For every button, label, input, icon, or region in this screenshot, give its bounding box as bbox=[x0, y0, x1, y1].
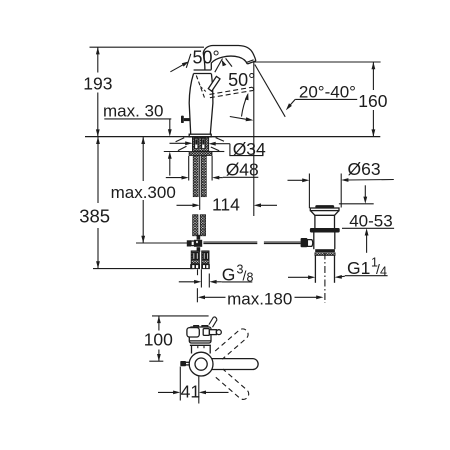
svg-text:114: 114 bbox=[212, 194, 240, 214]
deck hatch right bbox=[216, 138, 224, 142]
svg-text:G1: G1 bbox=[347, 258, 370, 278]
plan head: left cap bbox=[187, 328, 199, 337]
dimension 160 vertical line bbox=[372, 62, 374, 90]
dimension diam 48 extension lines bbox=[188, 156, 190, 181]
drain: diam63 extension lines bbox=[308, 174, 310, 209]
diam34 label riser bbox=[230, 144, 264, 156]
dimension diam 34 arrows bbox=[170, 142, 187, 144]
drain body lower bbox=[313, 233, 315, 250]
hose nut left bbox=[190, 264, 200, 269]
plan head: main body bbox=[189, 327, 211, 343]
tick for 50deg leader bbox=[186, 54, 191, 68]
arrow down 193 bbox=[96, 129, 100, 136]
plan lever tip bbox=[216, 330, 221, 335]
leader arrow 20-40 bbox=[288, 99, 295, 107]
plan dashed arm lower bbox=[216, 369, 249, 399]
neck top lines bbox=[194, 69, 212, 71]
svg-text:Ø34: Ø34 bbox=[233, 139, 266, 159]
reference line spout height 160 bbox=[254, 61, 381, 63]
plan dashed arm upper bbox=[215, 329, 248, 359]
stream angle line 20-40 bbox=[255, 65, 285, 117]
spout left edge into neck bbox=[203, 53, 205, 70]
dimension 385 vertical line bbox=[97, 137, 99, 203]
drain bottom flange bbox=[315, 249, 335, 252]
underline 40-53 bbox=[342, 227, 394, 229]
leader arrow to tick bbox=[170, 64, 185, 72]
svg-text:max.300: max.300 bbox=[111, 183, 176, 202]
dimension G1 1/4 arrows bbox=[288, 276, 310, 278]
deck line bbox=[85, 136, 380, 138]
svg-text:4: 4 bbox=[380, 265, 387, 279]
pop-up rod inside tube bbox=[199, 156, 201, 210]
hose nut right bbox=[201, 264, 210, 269]
handle axis extension line bbox=[215, 59, 223, 73]
svg-text:41: 41 bbox=[181, 381, 200, 401]
underline 20-40 bbox=[295, 98, 357, 100]
arrow up max.30 below deck bbox=[169, 158, 171, 176]
arrow up 193 bbox=[96, 47, 100, 54]
lever ghost diagonal bbox=[209, 317, 214, 324]
plan head: top tabs bbox=[194, 326, 199, 329]
drain plug dome bbox=[315, 205, 334, 208]
G3/8 arrows bbox=[179, 281, 196, 283]
pop-up rod horizontal left segment bbox=[136, 242, 187, 244]
mounting nut flange bbox=[189, 152, 212, 156]
40-53 bottom arrow bbox=[366, 235, 368, 253]
svg-text:40-53: 40-53 bbox=[349, 212, 392, 231]
svg-text:100: 100 bbox=[144, 330, 173, 350]
handle dashed ghost position bbox=[210, 87, 253, 94]
svg-text:50°: 50° bbox=[228, 70, 255, 90]
plan inner circle bbox=[195, 358, 207, 370]
spout tip face bbox=[247, 61, 256, 64]
rod tee assembly bbox=[187, 240, 191, 246]
drain upper body bbox=[314, 215, 316, 228]
deck hatch left bbox=[176, 138, 185, 142]
dimension 41 bbox=[179, 367, 181, 401]
plan pop-up knob bbox=[180, 361, 186, 366]
small leader line right bbox=[226, 58, 232, 66]
plan neck bbox=[191, 345, 193, 353]
plan spout circle bbox=[189, 352, 213, 376]
spout inner underside curve bbox=[211, 56, 247, 70]
body right edge bbox=[210, 74, 213, 135]
arc for 50deg spout bbox=[242, 95, 248, 117]
svg-text:Ø63: Ø63 bbox=[348, 159, 381, 179]
spout aerator bbox=[246, 60, 254, 63]
arrow down max.30 to deck bbox=[169, 119, 171, 130]
svg-text:50°: 50° bbox=[193, 47, 220, 67]
handle lever bbox=[208, 76, 220, 91]
hose connector right bbox=[202, 251, 209, 264]
deck underside line left bbox=[164, 151, 189, 153]
deck underside line right bbox=[209, 151, 225, 153]
svg-text:max.180: max.180 bbox=[227, 289, 292, 308]
plan lever block bbox=[203, 329, 209, 336]
escutcheon base plate bbox=[189, 134, 211, 137]
drain thread ring bbox=[315, 253, 335, 256]
diam 48 arrows bbox=[166, 177, 183, 179]
drain flange taper bbox=[311, 211, 339, 216]
drain locknut bbox=[310, 228, 340, 233]
dimension 193 vertical line bbox=[97, 47, 99, 72]
top reference line at faucet top bbox=[90, 46, 205, 48]
tailpipe bbox=[314, 255, 316, 282]
hose connector left bbox=[191, 251, 199, 264]
reference line bottom of arc bbox=[230, 117, 247, 120]
body left edge bbox=[189, 74, 193, 135]
underline max.30 bbox=[104, 118, 171, 120]
reference line lever tip bbox=[152, 315, 209, 317]
deck line segment at faucet bbox=[183, 136, 218, 138]
plan collar bbox=[190, 341, 211, 345]
svg-text:max. 30: max. 30 bbox=[103, 102, 163, 121]
bottom tick of 100 bbox=[149, 360, 163, 362]
dimension max180 bbox=[198, 295, 205, 299]
svg-text:Ø48: Ø48 bbox=[226, 160, 259, 180]
shank stud slot left bbox=[195, 138, 199, 149]
svg-text:193: 193 bbox=[83, 73, 112, 93]
drain centerline bbox=[324, 253, 326, 304]
dimension 40-53 top arrow bbox=[339, 203, 374, 205]
cartridge dashed line 1 bbox=[196, 76, 205, 100]
diam63 arrows bbox=[288, 179, 304, 181]
G3/8 extension lines bbox=[197, 269, 199, 275]
drain knob bbox=[301, 238, 308, 247]
arrowhead at handle axis bbox=[222, 60, 227, 66]
plan solid spout arm bbox=[208, 359, 258, 370]
bottom reference line for 385 (hose end level) bbox=[93, 268, 194, 270]
spout tip vertical extension line bbox=[253, 62, 255, 216]
dimension max.300 vertical line bbox=[142, 137, 144, 181]
faucet spout outer curve bbox=[203, 46, 256, 61]
max180 extension line at faucet bbox=[196, 288, 198, 302]
svg-text:20°-40°: 20°-40° bbox=[299, 83, 356, 102]
hose columns (break section) bbox=[193, 215, 198, 236]
plan lever rod bbox=[209, 330, 216, 335]
dimension 100 bbox=[158, 316, 160, 331]
dimension 114 bbox=[177, 204, 194, 206]
pop-up rod to drain bbox=[203, 241, 257, 243]
drain flange rim bbox=[310, 208, 339, 211]
svg-text:385: 385 bbox=[79, 205, 110, 226]
threaded tube columns bbox=[193, 155, 198, 196]
shank stud slot right bbox=[202, 138, 206, 149]
shank block below deck bbox=[193, 137, 209, 151]
cartridge dashed line 2 bbox=[200, 87, 206, 92]
pop-up knob on body left bbox=[181, 116, 184, 123]
svg-text:160: 160 bbox=[358, 91, 387, 111]
